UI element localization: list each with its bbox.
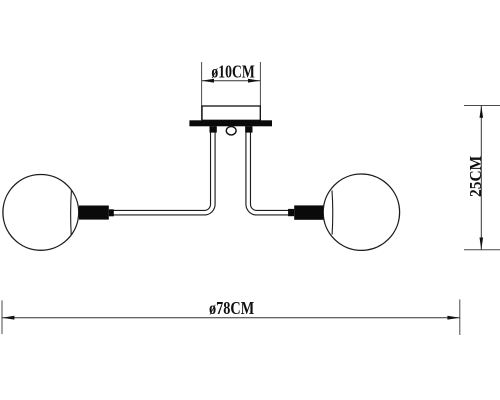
dimension ø78CM arrow right: [447, 316, 459, 320]
right socket body: [294, 205, 323, 219]
wire right arm tube inner: [248, 126, 288, 213]
dimension ø10CM arrow right: [248, 79, 260, 83]
dimension 25CM bottom tick: [464, 249, 500, 251]
dimension 25CM arrow down: [480, 238, 484, 250]
svg-text:ø10CM: ø10CM: [211, 63, 254, 82]
arm connector nub left: [210, 126, 217, 132]
dimension ø78CM arrow left: [2, 316, 14, 320]
wire right arm tube outline: [248, 126, 288, 213]
dimension 25CM arrow up: [480, 106, 484, 118]
right globe: [323, 174, 399, 250]
dimension ø10CM extension line right: [259, 62, 261, 120]
dimension ø78CM line: [2, 317, 460, 319]
dimension ø78CM left tick: [1, 300, 3, 334]
left globe: [3, 175, 79, 251]
left socket step: [109, 209, 114, 216]
right globe rim arc: [331, 190, 334, 234]
dimension ø10CM arrow left: [202, 79, 214, 83]
left globe rim arc: [70, 190, 73, 235]
dimension 25CM top tick: [464, 105, 500, 107]
wire left arm tube inner: [114, 126, 213, 213]
center ornament ring: [226, 127, 236, 135]
dimension ø78CM right tick: [459, 299, 461, 335]
arm connector nub right: [245, 126, 252, 132]
ceiling bar: [189, 120, 272, 126]
wire left arm tube outline: [114, 126, 213, 213]
svg-text:ø78CM: ø78CM: [209, 297, 255, 318]
dimension ø10CM line: [202, 80, 261, 82]
dimension 25CM line: [480, 106, 482, 250]
svg-text:25CM: 25CM: [465, 156, 485, 197]
canopy plate: [202, 106, 260, 120]
right socket step: [288, 209, 294, 216]
left socket body: [79, 206, 109, 220]
dimension ø10CM extension line left: [201, 62, 203, 120]
